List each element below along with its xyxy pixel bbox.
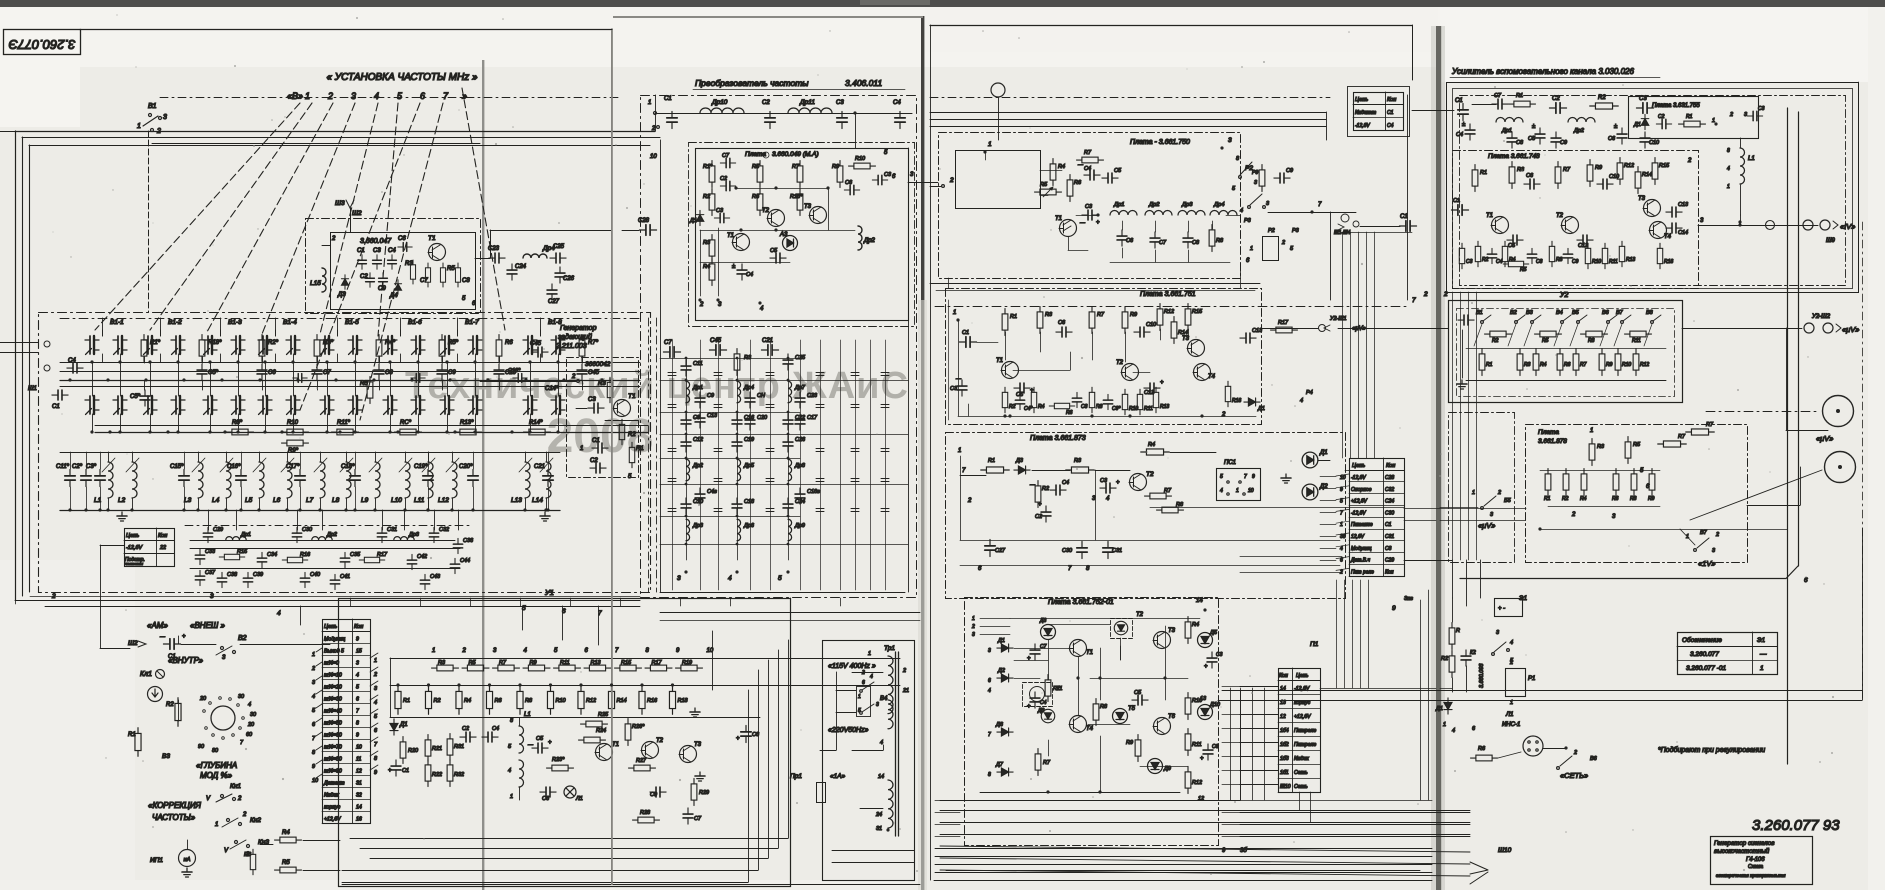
wires 878: [1540, 470, 1660, 472]
svg-text:3.260.077 -01: 3.260.077 -01: [1686, 665, 1727, 672]
svg-text:С40: С40: [310, 572, 321, 578]
svg-text:ЧАСТОТЫ»: ЧАСТОТЫ»: [152, 813, 196, 822]
svg-text:Индикат: Индикат: [1355, 110, 1376, 116]
transistor T2e: [1130, 474, 1147, 491]
svg-text:R15: R15: [621, 660, 632, 666]
svg-text:R25: R25: [598, 712, 609, 718]
svg-text:R1: R1: [403, 698, 410, 704]
svg-text:C3: C3: [884, 172, 892, 178]
table row корпус: [322, 811, 370, 813]
svg-text:14: 14: [356, 805, 362, 811]
svg-text:+12,6V: +12,6V: [324, 817, 341, 823]
resistor R15: [615, 665, 642, 671]
choke Dr2v: [858, 226, 862, 250]
svg-text:R9: R9: [1606, 362, 1613, 368]
svg-text:Др2: Др2: [863, 238, 876, 244]
svg-text:1: 1: [432, 648, 435, 654]
svg-text:R1: R1: [1480, 170, 1487, 176]
component C29: [203, 527, 212, 542]
svg-text:Д7: Д7: [995, 762, 1004, 768]
trimmer arrow L5: [253, 458, 266, 472]
svg-text:T2: T2: [762, 208, 770, 214]
svg-text:Др2: Др2: [326, 532, 337, 538]
svg-text:Т2: Т2: [656, 738, 664, 744]
svg-text:мА: мА: [184, 857, 191, 863]
vertical drops to modulator: [300, 606, 302, 625]
resistor R13: [584, 665, 611, 671]
out wire right: [908, 182, 921, 184]
cap C3b: [714, 213, 729, 222]
svg-text:корпус: корпус: [324, 805, 341, 811]
section row2 switch symbols: [143, 396, 157, 415]
panel3 bottom nested rect lines: [935, 848, 1432, 850]
resistor R3: [432, 665, 459, 671]
panel4 bottom dash frames: [1449, 413, 1515, 563]
svg-text:L12: L12: [438, 497, 449, 504]
resistor R12: [1633, 349, 1639, 376]
resistor R5: [1535, 331, 1562, 337]
panel3 bottom verticals: [1230, 688, 1232, 800]
svg-text:С11: С11: [693, 361, 703, 367]
section wires: [439, 362, 491, 364]
svg-text:R5: R5: [447, 266, 455, 272]
filter band frame: [185, 525, 470, 527]
svg-text:Др7: Др7: [794, 385, 806, 391]
svg-text:+: +: [1038, 502, 1042, 508]
svg-text:7: 7: [1340, 510, 1343, 516]
svg-text:«1А»: «1А»: [830, 773, 846, 780]
wires into P1 table: [1240, 686, 1278, 688]
cap C6b: [844, 185, 859, 194]
svg-text:C5: C5: [1508, 243, 1516, 249]
arrow symbol m: [148, 687, 163, 702]
capacitor C9: [437, 364, 447, 380]
panel1 bottom extra lines: [342, 884, 920, 886]
U1 inner verticals: [712, 631, 714, 690]
switch В6 сеть: [1560, 756, 1572, 766]
svg-text:Т3: Т3: [1638, 196, 1646, 202]
svg-text:C16*: C16*: [227, 464, 241, 470]
component R8: [1549, 241, 1554, 267]
component СН: [745, 392, 755, 408]
switch В3: [1531, 321, 1534, 324]
svg-text:P3: P3: [1292, 228, 1300, 234]
conn row 12,6V: [1349, 540, 1404, 542]
res R31: [447, 734, 453, 761]
capacitor C7: [312, 364, 322, 380]
svg-text:С1: С1: [1400, 214, 1408, 220]
svg-text:R14: R14: [1642, 172, 1652, 178]
component С18: [732, 498, 742, 514]
res R2b: [619, 419, 624, 445]
res R5o: [440, 263, 445, 287]
svg-text:Д2: Д2: [1319, 484, 1328, 490]
component Др2: [312, 537, 332, 540]
cap C1d: [959, 337, 976, 347]
svg-text:В7: В7: [1700, 530, 1708, 536]
resistor R5*: [439, 335, 445, 362]
svg-text:4: 4: [880, 740, 883, 746]
svg-text:С9: С9: [650, 792, 657, 798]
cap C13d: [1240, 333, 1256, 343]
svg-text:6: 6: [1340, 558, 1343, 564]
svg-text:Цепь: Цепь: [324, 624, 337, 630]
wire bus y507 across fold: [1150, 507, 1404, 509]
res R1g: [1679, 121, 1706, 127]
choke Dr10: [700, 108, 744, 113]
svg-text:C2: C2: [1035, 514, 1042, 520]
wires 873: [960, 475, 986, 477]
svg-text:+ -: + -: [1498, 606, 1505, 612]
wire osc bus: [490, 230, 492, 258]
svg-text:3.660.047: 3.660.047: [360, 238, 392, 245]
choke Др3: [1178, 211, 1205, 216]
ground bus end symbols: [117, 512, 127, 521]
wire from У2-Ш1 across fold: [1338, 328, 1412, 330]
bus bundle below: [940, 810, 1470, 812]
switch В7: [1621, 321, 1624, 324]
svg-text:Плата 3.661.748: Плата 3.661.748: [1488, 153, 1540, 160]
svg-text:Др2: Др2: [1148, 202, 1160, 208]
trimmer arrow L1: [102, 458, 115, 472]
svg-text:Питреле: Питреле: [1294, 742, 1316, 748]
svg-text:В7: В7: [1616, 310, 1624, 316]
svg-text:Р1: Р1: [1528, 676, 1535, 682]
svg-text:R3: R3: [1597, 444, 1605, 450]
transistor T2u: [642, 742, 659, 759]
svg-text:С9: С9: [707, 393, 714, 399]
cap C4 sec1: [67, 363, 83, 373]
svg-text:C20*: C20*: [459, 464, 473, 470]
caps bottom 873: [985, 539, 995, 556]
res R20: [400, 737, 406, 764]
varr R5: [1043, 187, 1053, 197]
resistor R4*: [376, 335, 382, 362]
svg-text:C21: C21: [762, 338, 773, 344]
res R3b: [709, 235, 715, 262]
svg-text:R1: R1: [1544, 496, 1551, 502]
svg-text:L13: L13: [511, 497, 522, 504]
svg-text:R4: R4: [1038, 404, 1045, 410]
trimmer arrow L10: [399, 458, 412, 472]
cap C9u: [650, 787, 666, 797]
resistor R18*: [199, 335, 205, 362]
inductor L2: [132, 462, 137, 498]
panel3 751 board left verticals: [958, 320, 960, 416]
component R15: [219, 554, 245, 559]
svg-text:3.661.878: 3.661.878: [1538, 438, 1567, 445]
svg-text:С42: С42: [417, 554, 427, 560]
component С37: [195, 570, 204, 585]
component Др3: [686, 519, 690, 541]
component С39: [243, 572, 252, 587]
svg-text:Пит реле: Пит реле: [1351, 569, 1374, 575]
svg-text:R10: R10: [556, 698, 567, 704]
svg-text:«ВНЕШ »: «ВНЕШ »: [190, 621, 225, 630]
svg-text:R3: R3: [1517, 167, 1525, 173]
panel2 left vertical bus: [660, 140, 662, 592]
component С10: [681, 498, 691, 514]
svg-text:+: +: [1027, 704, 1031, 710]
res R1h: [1472, 165, 1478, 192]
svg-text:Цепь: Цепь: [1296, 673, 1309, 679]
component R16: [1657, 243, 1662, 269]
svg-text:R6: R6: [1066, 410, 1073, 416]
thyristor T5p: [1113, 709, 1128, 724]
svg-text:С18: С18: [744, 499, 755, 505]
svg-text:Индик: Индик: [1294, 756, 1309, 762]
svg-text:2: 2: [327, 91, 333, 101]
svg-text:Т4: Т4: [1086, 726, 1094, 732]
svg-text:m%=30: m%=30: [324, 697, 342, 703]
svg-text:1: 1: [1250, 246, 1253, 252]
cap C1h: [1451, 205, 1468, 215]
svg-text:R7: R7: [1164, 488, 1172, 494]
table row m%=70: [322, 751, 370, 753]
wire top bus y143: [152, 143, 480, 145]
svg-text:C28: C28: [638, 218, 650, 224]
svg-text:R11: R11: [1192, 742, 1202, 748]
svg-text:R6: R6: [1612, 496, 1619, 502]
svg-text:Т3: Т3: [694, 742, 702, 748]
ground u1: [690, 708, 700, 717]
svg-text:C7: C7: [722, 153, 730, 159]
component С43: [420, 574, 429, 589]
cap C24: [507, 264, 517, 280]
svg-text:3: 3: [876, 702, 879, 708]
component С9: [695, 392, 705, 408]
svg-text:R11: R11: [1609, 259, 1618, 265]
svg-text:R11: R11: [1632, 338, 1641, 344]
svg-text:C1: C1: [962, 330, 969, 336]
diode D7p: [997, 768, 1013, 776]
svg-text:R10: R10: [1592, 259, 1601, 265]
svg-text:31: 31: [876, 826, 882, 832]
svg-text:R13: R13: [1160, 404, 1169, 410]
svg-text:m%=10: m%=10: [324, 673, 342, 679]
svg-text:Кон: Кон: [1387, 97, 1396, 103]
component R13: [1619, 241, 1624, 267]
svg-text:C9: C9: [1560, 140, 1567, 146]
svg-text:1: 1: [215, 822, 218, 828]
svg-text:4: 4: [870, 674, 873, 680]
component C25: [783, 354, 793, 370]
resistor R1: [395, 686, 401, 715]
board 3.661.873 outline: [946, 433, 1346, 599]
transistor T1u: [596, 744, 613, 761]
svg-text:С8: С8: [1192, 240, 1200, 246]
P1 row Питреле: [1278, 736, 1320, 738]
cap C4e: [1050, 485, 1066, 495]
svg-text:3: 3: [988, 648, 991, 654]
svg-text:R9: R9: [530, 660, 537, 666]
panel2 dots: [685, 357, 688, 360]
panel3 873 board bottom bus: [960, 540, 1340, 542]
svg-text:«КОРРЕКЦИЯ: «КОРРЕКЦИЯ: [148, 801, 202, 810]
capacitor C8: [374, 364, 384, 380]
svg-text:R4: R4: [464, 698, 471, 704]
svg-text:R10: R10: [855, 156, 866, 162]
svg-text:R32: R32: [454, 772, 464, 778]
diode D3e: [1014, 466, 1030, 474]
svg-text:3пв: 3пв: [1404, 596, 1413, 602]
component Др5: [737, 459, 741, 481]
component R10: [1122, 389, 1127, 415]
svg-text:К2: К2: [1470, 650, 1476, 656]
svg-text:1: 1: [972, 616, 975, 622]
cap C13h: [1666, 207, 1682, 217]
input rect 750: [956, 151, 1041, 209]
svg-text:R8: R8: [525, 698, 533, 704]
table row m%=40: [322, 715, 370, 717]
component R4: [1031, 387, 1036, 413]
cap C14h: [1666, 223, 1682, 233]
caps row2 small: [293, 374, 307, 383]
top bus p4: [1472, 104, 1496, 106]
svg-text:C24: C24: [515, 264, 527, 270]
svg-text:1: 1: [137, 123, 141, 130]
svg-text:R2: R2: [434, 698, 441, 704]
svg-text:3.260.077 93: 3.260.077 93: [1752, 817, 1840, 834]
title block: [1711, 837, 1813, 885]
res R21: [425, 735, 431, 762]
dash-dot separator under 750: [935, 306, 1408, 308]
svg-text:L1: L1: [1748, 156, 1755, 162]
diode D2p: [997, 674, 1013, 682]
svg-text:C9: C9: [448, 370, 456, 376]
cap C9c: [1274, 173, 1290, 183]
svg-text:«μV»: «μV»: [1842, 325, 1859, 334]
component C3: [1459, 243, 1464, 269]
svg-text:-12,6V: -12,6V: [1355, 123, 1370, 129]
svg-text:Т1: Т1: [1086, 650, 1093, 656]
svg-text:2: 2: [331, 236, 336, 242]
cap C5d: [1014, 383, 1030, 393]
svg-text:1: 1: [312, 652, 315, 658]
svg-text:R2: R2: [1009, 404, 1016, 410]
svg-text:C7: C7: [1494, 93, 1502, 99]
svg-text:Д1: Д1: [1257, 406, 1265, 412]
switch В2: [1515, 321, 1518, 324]
component С36: [453, 538, 462, 553]
svg-text:В1-2: В1-2: [168, 319, 182, 326]
svg-text:Питреле: Питреле: [1294, 728, 1316, 734]
svg-text:R9: R9: [1130, 312, 1137, 318]
diode D1b: [696, 210, 704, 225]
panel3 dash bus: [930, 97, 1330, 99]
svg-text:Др5: Др5: [743, 463, 755, 469]
cap C3t: [837, 111, 847, 128]
resistor RC*: [395, 429, 422, 435]
svg-text:2: 2: [1221, 412, 1226, 418]
svg-text:Д1: Д1: [1633, 122, 1641, 128]
ladder lower bus: [390, 685, 900, 687]
svg-text:C6: C6: [398, 236, 406, 242]
cap C10d: [1134, 327, 1150, 337]
res R3m: [250, 849, 255, 875]
capacitor C3*: [95, 469, 105, 486]
svg-text:+: +: [1027, 656, 1031, 662]
svg-text:R4: R4: [282, 830, 290, 836]
cap C28: [639, 225, 656, 235]
svg-text:C2: C2: [360, 274, 368, 280]
resistor R10: [282, 429, 309, 435]
svg-text:L8: L8: [332, 497, 340, 504]
svg-text:10: 10: [312, 778, 319, 784]
component Др8: [788, 459, 792, 481]
svg-text:T1: T1: [628, 393, 636, 400]
svg-text:14: 14: [878, 774, 884, 780]
svg-text:1б2: 1б2: [1280, 742, 1289, 748]
svg-text:Р4: Р4: [1306, 390, 1313, 396]
svg-text:Т6: Т6: [1168, 714, 1176, 720]
wire panel1 to panel2 top: [612, 131, 655, 133]
res R3h: [1509, 162, 1515, 189]
svg-text:С3: С3: [1758, 106, 1765, 112]
svg-text:С31: С31: [1112, 548, 1122, 554]
component R2: [1002, 387, 1007, 413]
res R4b: [709, 259, 715, 286]
resistor R8: [517, 686, 523, 715]
svg-text:90: 90: [198, 744, 205, 750]
cap C3p: [1207, 652, 1217, 668]
res R5m: [275, 867, 302, 873]
svg-text:« УСТАНОВКА ЧАСТОТЫ МHz »: « УСТАНОВКА ЧАСТОТЫ МHz »: [326, 72, 478, 83]
cap C4u: [482, 732, 498, 742]
svg-text:Др4: Др4: [743, 385, 754, 391]
component С17: [795, 414, 805, 430]
res R24: [579, 737, 606, 743]
svg-text:m%=20: m%=20: [324, 685, 342, 691]
svg-text:6: 6: [988, 678, 991, 684]
svg-text:R2*: R2*: [268, 340, 279, 346]
svg-text:«115V 400Hz »: «115V 400Hz »: [828, 663, 876, 670]
svg-text:L9: L9: [361, 497, 369, 504]
svg-text:Др3: Др3: [692, 523, 704, 529]
component C9: [1563, 248, 1572, 263]
res R3i: [1589, 439, 1595, 466]
component С8: [681, 414, 691, 430]
svg-text:С20: С20: [757, 415, 768, 421]
res R5c: [1035, 189, 1062, 195]
svg-text:Др2: Др2: [692, 463, 703, 469]
res R9c: [1259, 165, 1265, 192]
svg-text:Д9: Д9: [1163, 766, 1171, 772]
resistor R6: [1613, 469, 1619, 496]
panel3 right verticals link: [1336, 580, 1338, 688]
svg-text:«ВНУТР»: «ВНУТР»: [168, 656, 204, 665]
res R4p: [1185, 617, 1191, 644]
svg-text:Т3: Т3: [1168, 628, 1176, 634]
capacitor C2*: [81, 469, 91, 486]
transistor T3u: [680, 746, 697, 763]
svg-text:4: 4: [1300, 398, 1303, 404]
cap C6d: [1056, 327, 1072, 337]
svg-text:12,6V: 12,6V: [1351, 534, 1365, 540]
section wires: [382, 362, 434, 364]
svg-text:Др8: Др8: [794, 463, 806, 469]
resistor R4: [1581, 469, 1587, 496]
svg-text:R4: R4: [703, 264, 710, 270]
U1 nested border wires: [350, 838, 788, 840]
diode D4: [394, 280, 401, 294]
svg-text:2: 2: [1571, 512, 1576, 518]
svg-text:R5: R5: [360, 381, 368, 387]
svg-text:4: 4: [1510, 640, 1513, 646]
svg-text:Кон: Кон: [1279, 673, 1288, 679]
fuse Пр1: [817, 783, 826, 803]
svg-text:Д1: Д1: [1319, 450, 1328, 456]
